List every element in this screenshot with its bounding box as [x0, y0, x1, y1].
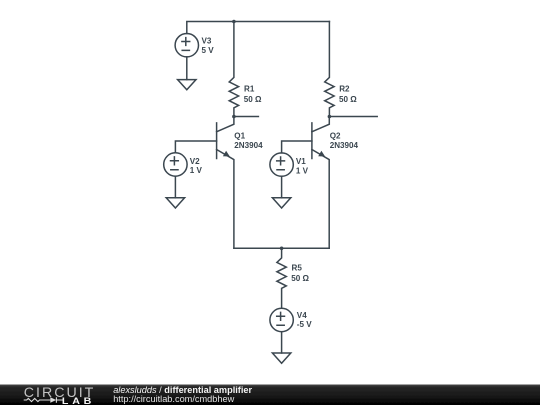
wire emitter rail [234, 247, 329, 249]
label V2 1 V [190, 157, 203, 175]
label R5 50 ohm [291, 263, 309, 283]
wire V3 to ground [186, 57, 188, 80]
svg-text:1 V: 1 V [190, 166, 203, 175]
wire top rail V3 to R2 [187, 22, 330, 34]
wire Q1 collector tap [234, 116, 259, 118]
svg-text:V2: V2 [190, 157, 200, 166]
ground below V3 [178, 80, 196, 90]
voltage source V3 [175, 34, 198, 57]
svg-text:2N3904: 2N3904 [330, 141, 359, 150]
voltage source V4 [270, 308, 293, 331]
ground below V1 [272, 198, 290, 208]
svg-text:R2: R2 [339, 84, 350, 93]
transistor Q2 [312, 117, 329, 249]
resistor R1 [229, 22, 238, 117]
node emitter rail junction [280, 247, 284, 251]
label V1 1 V [296, 157, 309, 175]
label V4 -5 V [297, 311, 312, 329]
svg-text:V3: V3 [202, 36, 212, 45]
voltage source V1 [270, 153, 293, 176]
footer bar [0, 385, 540, 405]
label R1 50 ohm [244, 84, 262, 104]
wire V2 to Q1 base [175, 141, 216, 153]
node Q2 collector junction [328, 115, 332, 119]
label V3 5 V [202, 36, 215, 55]
svg-text:V1: V1 [296, 157, 306, 166]
transistor Q1 [217, 117, 234, 249]
svg-text:50 Ω: 50 Ω [291, 274, 309, 283]
svg-text:R5: R5 [292, 263, 303, 272]
svg-text:http://circuitlab.com/cmdbhew: http://circuitlab.com/cmdbhew [113, 394, 234, 404]
resistor R2 [325, 22, 334, 117]
voltage source V2 [164, 153, 187, 176]
wire Q2 collector tap [329, 116, 377, 118]
wire V4 to ground [281, 332, 283, 353]
label R2 50 ohm [339, 84, 357, 104]
svg-text:2N3904: 2N3904 [234, 141, 263, 150]
wire V2 to ground [174, 176, 176, 198]
svg-text:LAB: LAB [62, 397, 95, 405]
label Q1 2N3904 [234, 131, 263, 150]
CircuitLab logo resistor and diode glyph [24, 397, 63, 403]
svg-text:5 V: 5 V [202, 46, 215, 55]
node top rail junction [232, 20, 236, 24]
svg-text:R1: R1 [244, 84, 255, 93]
wire V1 to Q2 base [282, 141, 312, 153]
svg-text:Q1: Q1 [234, 131, 245, 140]
svg-text:50 Ω: 50 Ω [244, 95, 262, 104]
ground below V4 [272, 353, 290, 363]
label Q2 2N3904 [330, 131, 359, 150]
ground below V2 [166, 198, 184, 208]
svg-text:Q2: Q2 [330, 131, 341, 140]
node Q1 collector junction [232, 115, 236, 119]
svg-text:50 Ω: 50 Ω [339, 95, 357, 104]
wire V1 to ground [281, 176, 283, 198]
svg-text:-5 V: -5 V [297, 320, 312, 329]
svg-text:1 V: 1 V [296, 166, 309, 175]
svg-text:V4: V4 [297, 311, 307, 320]
resistor R5 [277, 248, 286, 308]
